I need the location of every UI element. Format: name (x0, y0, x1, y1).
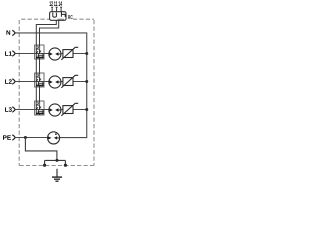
disconnector block L2 shell (35, 73, 44, 87)
terminal L3 (5, 107, 16, 114)
svg-text:L1: L1 (5, 51, 13, 58)
node earth junction (56, 159, 59, 162)
svg-text:12: 12 (49, 0, 53, 7)
wire RC linkage A (36, 20, 56, 115)
disconnector block L3 shell (35, 101, 44, 115)
wire RC linkage B (40, 20, 59, 115)
svg-text:RC: RC (68, 14, 73, 21)
svg-text:11: 11 (54, 0, 58, 7)
pin 11 (56, 8, 58, 11)
gas discharge tube N-PE (48, 132, 60, 144)
pin 14 (60, 8, 62, 11)
spark gap L2 (49, 76, 61, 88)
disconnector block L2 interior (36, 74, 44, 86)
remote contact RC (49, 0, 72, 20)
node PE junction (24, 136, 27, 139)
svg-text:PE: PE (3, 135, 12, 142)
disconnector block L3 interior (36, 102, 44, 114)
wire stub right PE terminal (64, 160, 66, 165)
disconnector block L1 interior (36, 46, 44, 58)
wire L3 row (15, 109, 49, 111)
disconnector block L1 shell (35, 45, 44, 59)
wire L1 row (15, 53, 49, 55)
pin 12 (51, 8, 53, 11)
terminal L2 (5, 79, 16, 86)
varistor L1 (61, 47, 78, 60)
svg-text:N: N (6, 30, 11, 37)
wire L2 row (15, 81, 49, 83)
ground (52, 169, 62, 181)
terminal N (6, 30, 15, 37)
spark gap L1 (49, 48, 61, 60)
svg-text:L3: L3 (5, 107, 13, 114)
enclosure dashed border (19, 19, 94, 165)
varistor L3 (61, 103, 78, 116)
wire stub left PE terminal (44, 160, 46, 165)
varistor L2 (61, 75, 78, 88)
terminal L1 (5, 51, 16, 58)
wire N to right bus down to PE row (15, 33, 87, 138)
wire PE to earth run (25, 138, 57, 161)
node PE terminal right (64, 164, 67, 167)
node PE terminal left (43, 164, 46, 167)
node bus-L3 (85, 108, 88, 111)
terminal PE (3, 135, 16, 142)
svg-text:14: 14 (58, 0, 62, 7)
spark gap L3 (49, 104, 61, 116)
svg-text:L2: L2 (5, 79, 13, 86)
node bus-L1 (85, 52, 88, 55)
wire PE row (15, 137, 48, 139)
wire earth bar (45, 159, 66, 161)
node bus-L2 (85, 80, 88, 83)
